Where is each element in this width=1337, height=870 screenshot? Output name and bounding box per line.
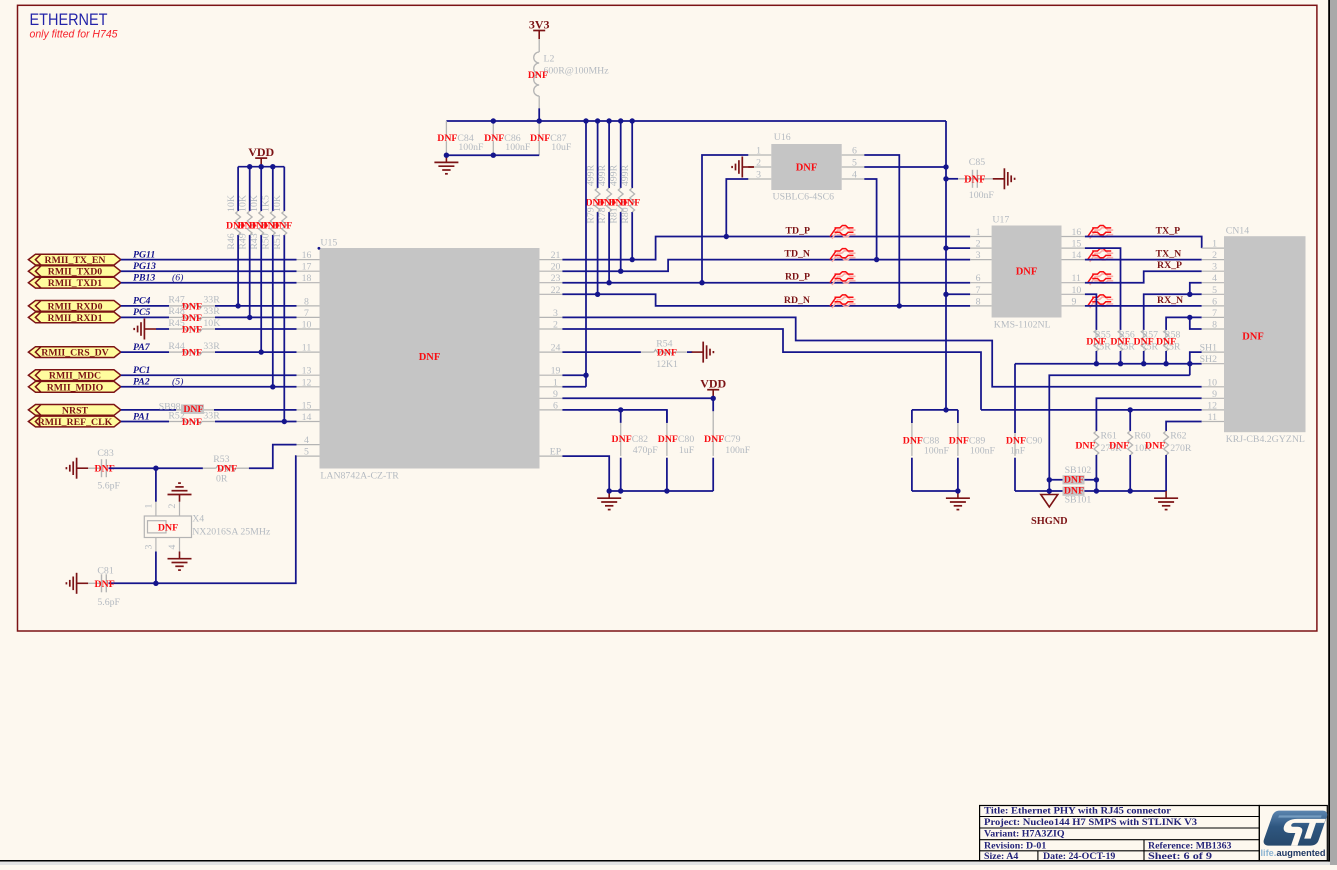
wire U15.9 row <box>562 397 713 399</box>
svg-text:DNF: DNF <box>1156 337 1176 348</box>
resistor R57 75R <box>1141 330 1146 351</box>
svg-text:R51: R51 <box>272 233 283 249</box>
SHGND symbol <box>1041 495 1058 508</box>
svg-text:9: 9 <box>553 389 558 400</box>
capacitor C88 <box>911 423 913 456</box>
svg-text:PG11: PG11 <box>133 249 155 260</box>
svg-text:33R: 33R <box>203 295 220 306</box>
wire <box>215 421 297 423</box>
wire U15.1 <box>562 386 586 388</box>
wire C89 top <box>957 410 959 423</box>
svg-text:2: 2 <box>756 158 761 169</box>
svg-text:100nF: 100nF <box>458 142 484 153</box>
svg-text:8: 8 <box>1212 320 1217 331</box>
wire C80 bottom <box>666 458 668 491</box>
svg-text:3: 3 <box>1212 262 1217 273</box>
svg-text:19: 19 <box>551 366 561 377</box>
svg-text:DNF: DNF <box>158 523 178 534</box>
wire C79 bottom <box>712 458 714 491</box>
wire U16.6 to RD_N <box>864 155 899 306</box>
svg-text:15: 15 <box>1072 239 1082 250</box>
svg-text:100nF: 100nF <box>970 446 996 457</box>
wire R57 bottom <box>1143 351 1145 364</box>
wire CN14.12 row to R60 <box>981 409 1202 411</box>
resistor R46 10K <box>236 211 241 235</box>
svg-text:11: 11 <box>1208 412 1218 423</box>
svg-text:DNF: DNF <box>530 133 550 144</box>
svg-text:DNF: DNF <box>183 404 203 415</box>
svg-text:KRJ-CB4.2GYZNL: KRJ-CB4.2GYZNL <box>1226 434 1305 445</box>
svg-text:100nF: 100nF <box>505 142 531 153</box>
ground C84 <box>434 155 458 174</box>
port RMII_RXD0 <box>28 301 120 313</box>
wire RX_P <box>1085 271 1202 283</box>
svg-text:SB98: SB98 <box>159 401 181 412</box>
pin name labels left <box>133 249 183 422</box>
capacitor C79 <box>712 411 714 456</box>
port RMII_RXD1 <box>28 312 120 324</box>
port NRST <box>28 405 120 417</box>
svg-text:16: 16 <box>302 250 312 261</box>
power 3V3 <box>529 18 550 40</box>
resistor R53 0R <box>203 466 249 471</box>
svg-text:RD_P: RD_P <box>785 272 810 283</box>
wire R51 leads <box>283 167 285 211</box>
svg-text:12: 12 <box>1207 400 1217 411</box>
svg-text:33R: 33R <box>203 306 220 317</box>
ground U16.2 <box>732 157 754 178</box>
resistor R79 499R <box>595 188 600 212</box>
svg-text:DNF: DNF <box>1016 267 1038 278</box>
svg-text:6: 6 <box>1212 296 1217 307</box>
solder bridge SB101 <box>1063 486 1085 497</box>
svg-text:RD_N: RD_N <box>784 295 810 306</box>
svg-text:1: 1 <box>1212 239 1217 250</box>
IC U15 LAN8742A <box>320 248 540 469</box>
wire R49 leads <box>249 167 251 211</box>
wire X4 pin3 <box>155 552 157 584</box>
svg-text:5.6pF: 5.6pF <box>97 597 120 608</box>
svg-text:18: 18 <box>302 273 312 284</box>
wire R78 leads <box>608 121 610 188</box>
svg-text:PG13: PG13 <box>133 261 156 272</box>
svg-text:only fitted for H745: only fitted for H745 <box>30 29 119 41</box>
svg-text:23: 23 <box>551 273 561 284</box>
crystal X4 <box>144 502 191 552</box>
svg-text:VDD: VDD <box>700 377 726 391</box>
svg-text:U16: U16 <box>774 132 791 143</box>
wire shield bus SH <box>1015 363 1202 365</box>
wire <box>215 328 297 330</box>
wire <box>214 409 297 411</box>
svg-text:NX2016SA 25MHz: NX2016SA 25MHz <box>192 527 271 538</box>
connector CN14 KRJ-CB4.2GYZNL <box>1224 236 1306 432</box>
svg-text:1: 1 <box>144 503 155 508</box>
wire U15.6 row <box>562 410 667 423</box>
svg-text:4: 4 <box>1212 273 1217 284</box>
svg-text:8: 8 <box>976 296 981 307</box>
wire U16.4 to TD_N <box>864 179 876 260</box>
svg-text:ETHERNET: ETHERNET <box>30 10 108 29</box>
svg-text:C83: C83 <box>97 448 113 459</box>
svg-text:11: 11 <box>1072 273 1082 284</box>
wire R55 bottom <box>1095 351 1097 364</box>
svg-text:DNF: DNF <box>1134 337 1154 348</box>
svg-text:RMII_RXD1: RMII_RXD1 <box>48 313 103 324</box>
svg-text:DNF: DNF <box>182 313 202 324</box>
svg-text:USBLC6-4SC6: USBLC6-4SC6 <box>773 192 835 203</box>
wire U15.23 RD_P row <box>562 282 970 284</box>
svg-text:100nF: 100nF <box>969 190 995 201</box>
wire SB102 row <box>1049 479 1096 481</box>
svg-text:DNF: DNF <box>704 434 724 445</box>
resistor R56 75R <box>1118 330 1123 351</box>
wire C82 top <box>620 410 622 423</box>
wire TX_N <box>1085 259 1202 261</box>
resistor R49 10K <box>247 211 252 235</box>
wire <box>121 351 169 353</box>
resistor R47 33R <box>169 304 215 309</box>
svg-text:2: 2 <box>1212 250 1217 261</box>
differential pair mark right <box>1088 249 1114 262</box>
svg-text:4: 4 <box>167 544 178 549</box>
svg-text:DNF: DNF <box>95 579 115 590</box>
svg-text:11: 11 <box>302 343 312 354</box>
wire U16.1 to RD_P <box>702 155 748 283</box>
svg-text:DNF: DNF <box>612 434 632 445</box>
resistor R78 499R <box>607 188 612 212</box>
svg-text:1: 1 <box>976 227 981 238</box>
wire C90 top <box>1014 364 1016 433</box>
svg-text:DNF: DNF <box>796 162 818 173</box>
resistor R52 33R <box>169 419 215 424</box>
svg-text:DNF: DNF <box>1086 337 1106 348</box>
capacitor C81 <box>102 574 107 592</box>
logo box <box>1259 806 1327 862</box>
svg-text:10: 10 <box>302 320 312 331</box>
svg-text:SB102: SB102 <box>1065 465 1092 476</box>
resistor R44 33R <box>169 350 215 355</box>
svg-text:6: 6 <box>553 400 558 411</box>
svg-text:R43: R43 <box>249 233 260 249</box>
page right edge <box>1328 0 1330 862</box>
svg-text:RMII_MDC: RMII_MDC <box>49 371 101 382</box>
svg-text:C85: C85 <box>969 157 985 168</box>
svg-text:16: 16 <box>1072 227 1082 238</box>
svg-text:24: 24 <box>551 343 561 354</box>
svg-text:R62: R62 <box>1170 430 1186 441</box>
wire U15 pin5 to C81 <box>109 456 297 583</box>
svg-text:VDD: VDD <box>248 145 274 159</box>
wire U15.3 to CN14.10 <box>562 317 1201 386</box>
wire U15.22 jog <box>562 294 970 306</box>
svg-text:12: 12 <box>302 377 312 388</box>
wire C79 top <box>712 398 714 411</box>
resistor R60 10K <box>1128 431 1133 455</box>
wire R50 leads <box>272 167 274 211</box>
wire SB101 row bus <box>1015 490 1166 492</box>
svg-text:DNF: DNF <box>182 348 202 359</box>
svg-text:7: 7 <box>1212 308 1217 319</box>
svg-text:(5): (5) <box>172 377 183 388</box>
svg-text:RMII_RXD0: RMII_RXD0 <box>48 301 103 312</box>
svg-text:R80: R80 <box>620 207 631 223</box>
svg-text:600R@100MHz: 600R@100MHz <box>544 66 610 77</box>
wire R60 bottom <box>1129 455 1131 491</box>
svg-text:5: 5 <box>1212 285 1217 296</box>
wire C84 bottom bus <box>446 154 539 156</box>
VDD bank bus <box>238 166 284 168</box>
svg-text:DNF: DNF <box>182 325 202 336</box>
resistor R48 33R <box>169 315 215 320</box>
port RMII_MDC <box>28 370 120 382</box>
svg-text:DNF: DNF <box>528 70 548 81</box>
sheet border <box>18 5 1317 631</box>
svg-text:DNF: DNF <box>903 435 923 446</box>
wire <box>121 316 169 318</box>
svg-text:1: 1 <box>553 377 558 388</box>
resistor R58 75R <box>1164 330 1169 351</box>
svg-text:100nF: 100nF <box>924 446 950 457</box>
wire shield to SHGND <box>1049 375 1190 494</box>
U17 pins <box>970 227 1085 307</box>
svg-text:SHGND: SHGND <box>1031 516 1068 527</box>
wire <box>156 328 169 330</box>
wire C80 top <box>666 410 668 423</box>
svg-text:0R: 0R <box>216 474 228 485</box>
ground R54 <box>692 342 714 363</box>
svg-text:Title: Ethernet PHY with RJ45: Title: Ethernet PHY with RJ45 connector <box>984 806 1172 817</box>
svg-text:3: 3 <box>144 544 155 549</box>
wire <box>121 270 297 272</box>
wire R53 to U15 pin4 <box>249 445 297 469</box>
page bottom edge <box>0 860 1330 862</box>
wire TX_P <box>1085 237 1202 249</box>
svg-text:RMII_REF_CLK: RMII_REF_CLK <box>38 417 113 428</box>
ground C81 <box>66 573 88 594</box>
svg-text:10K: 10K <box>226 195 237 212</box>
ground C85 <box>993 168 1015 189</box>
svg-text:20: 20 <box>551 262 561 273</box>
svg-text:3: 3 <box>756 170 761 181</box>
svg-text:14: 14 <box>302 412 312 423</box>
svg-text:9: 9 <box>1212 389 1217 400</box>
svg-text:DNF: DNF <box>1242 332 1264 343</box>
svg-text:RMII_TXD1: RMII_TXD1 <box>48 278 103 289</box>
svg-text:8: 8 <box>304 296 309 307</box>
svg-text:DNF: DNF <box>1075 440 1095 451</box>
wire C90 bottom <box>1014 458 1016 491</box>
svg-text:10K: 10K <box>272 195 283 212</box>
resistor R81 499R <box>618 188 623 212</box>
svg-text:3V3: 3V3 <box>529 18 550 32</box>
svg-text:10: 10 <box>1072 285 1082 296</box>
capacitor C82 <box>620 423 622 456</box>
svg-text:KMS-1102NL: KMS-1102NL <box>994 320 1051 331</box>
wire CN14.9 to R61 <box>1096 398 1201 431</box>
svg-text:5: 5 <box>304 447 309 458</box>
wire R46 leads <box>237 167 239 211</box>
resistor R50 1K5 <box>270 211 275 235</box>
wire 3V3 feed column to U15 pins 19/1 <box>585 121 587 387</box>
wire C89 bottom <box>957 458 959 491</box>
svg-text:L2: L2 <box>544 54 555 65</box>
svg-text:13: 13 <box>302 366 312 377</box>
resistor R54 12K1 <box>641 350 687 355</box>
differential pair mark right <box>1088 272 1114 285</box>
svg-text:CN14: CN14 <box>1226 226 1250 237</box>
svg-text:C90: C90 <box>1026 435 1042 446</box>
svg-text:C82: C82 <box>632 434 648 445</box>
wire U15.2 to CN14.12 <box>562 329 981 410</box>
svg-text:TD_P: TD_P <box>786 226 811 237</box>
capacitor C87 <box>538 121 540 139</box>
wire <box>562 351 641 353</box>
differential pair mark <box>830 272 856 285</box>
power VDD left <box>248 145 274 167</box>
capacitor C89 <box>957 423 959 456</box>
wire R57 row <box>1144 294 1202 330</box>
wire R43 leads <box>260 167 262 211</box>
svg-text:C80: C80 <box>678 434 694 445</box>
svg-text:TX_N: TX_N <box>1156 249 1182 260</box>
svg-text:TD_N: TD_N <box>784 249 810 260</box>
svg-text:C79: C79 <box>724 434 740 445</box>
wire C85 gray lead <box>958 178 993 180</box>
svg-text:1K5: 1K5 <box>261 195 272 212</box>
svg-text:5: 5 <box>852 158 857 169</box>
svg-text:10K: 10K <box>249 195 260 212</box>
wire 3V3 to U17.2 <box>946 247 970 249</box>
wire <box>88 582 101 584</box>
wire R56 bottom <box>1120 351 1122 364</box>
wire <box>215 316 297 318</box>
svg-text:augmented: augmented <box>1277 848 1326 858</box>
IC U17 KMS-1102NL <box>992 226 1062 318</box>
svg-text:life.: life. <box>1261 848 1277 858</box>
svg-text:TX_P: TX_P <box>1156 226 1181 237</box>
wire R58 bottom <box>1165 351 1167 364</box>
svg-text:RMII_TX_EN: RMII_TX_EN <box>45 255 106 266</box>
wire X4 pin1 <box>155 468 157 502</box>
differential pair mark <box>830 249 856 262</box>
svg-text:DNF: DNF <box>1145 440 1165 451</box>
svg-text:U15: U15 <box>320 237 337 248</box>
svg-text:DNF: DNF <box>182 302 202 313</box>
svg-text:R81: R81 <box>608 207 619 223</box>
wire U17.15 to R56 <box>1085 248 1121 330</box>
svg-text:R78: R78 <box>597 207 608 223</box>
svg-text:499R: 499R <box>620 164 631 186</box>
wire 3V3 to U17.7 <box>946 293 970 295</box>
capacitor C90 <box>1014 433 1016 456</box>
svg-text:17: 17 <box>302 262 312 273</box>
wire R62 bottom <box>1165 455 1167 491</box>
port RMII_REF_CLK <box>28 416 120 428</box>
ground X4 pin2 <box>168 483 192 502</box>
svg-text:1uF: 1uF <box>679 445 695 456</box>
svg-text:2: 2 <box>976 239 981 250</box>
wire <box>121 282 297 284</box>
wire <box>121 421 169 423</box>
svg-text:RX_N: RX_N <box>1157 295 1183 306</box>
wire R60 top <box>1129 410 1131 431</box>
power VDD right <box>700 377 726 399</box>
differential pair mark right <box>1088 295 1114 308</box>
svg-text:10: 10 <box>1207 377 1217 388</box>
svg-text:2: 2 <box>553 320 558 331</box>
wire <box>121 386 297 388</box>
svg-text:DNF: DNF <box>620 197 640 208</box>
svg-text:X4: X4 <box>192 514 204 525</box>
port RMII_CRS_DV <box>28 347 120 359</box>
wire R58 row <box>1166 317 1202 330</box>
svg-text:100nF: 100nF <box>725 445 751 456</box>
svg-text:PB13: PB13 <box>133 273 155 284</box>
wire C88 bottom <box>911 458 913 491</box>
U16 pins <box>748 146 864 181</box>
svg-text:C81: C81 <box>97 566 113 577</box>
svg-text:10uF: 10uF <box>551 142 572 153</box>
svg-text:DNF: DNF <box>182 417 202 428</box>
svg-text:7: 7 <box>304 308 309 319</box>
svg-text:EP: EP <box>550 447 562 458</box>
wire decoupling ground bus <box>609 490 713 492</box>
svg-text:4: 4 <box>852 170 857 181</box>
wire <box>215 351 297 353</box>
port RMII_MDIO <box>28 381 120 393</box>
capacitor C84 <box>445 121 447 139</box>
resistor R80 499R <box>630 188 635 212</box>
svg-text:PA2: PA2 <box>133 377 150 388</box>
wire U16.5 to 3V3 <box>864 166 946 168</box>
svg-text:499R: 499R <box>608 164 619 186</box>
svg-text:PA7: PA7 <box>133 342 151 353</box>
svg-text:DNF: DNF <box>1109 440 1129 451</box>
differential pair mark <box>830 226 856 239</box>
ground X4 pin4 <box>168 552 192 571</box>
capacitor C86 <box>492 121 494 139</box>
svg-text:DNF: DNF <box>272 220 292 231</box>
wire C85 <box>946 178 958 180</box>
svg-text:3: 3 <box>976 250 981 261</box>
resistor R51 10K <box>282 211 287 235</box>
svg-text:DNF: DNF <box>419 352 441 363</box>
IC U16 USBLC6-4SC6 <box>771 144 841 190</box>
wire R81 leads <box>620 121 622 188</box>
svg-text:9: 9 <box>1072 296 1077 307</box>
wire U15.19 <box>562 374 586 376</box>
wire <box>121 259 297 261</box>
wire CN14.4/5 tie <box>1190 283 1202 295</box>
CN14 pins <box>1200 239 1224 423</box>
wire R61 bottom <box>1095 455 1097 491</box>
resistor R62 270R <box>1164 431 1169 455</box>
svg-text:SH2: SH2 <box>1200 354 1218 365</box>
svg-text:SB101: SB101 <box>1065 494 1092 505</box>
svg-text:3: 3 <box>553 308 558 319</box>
wire RX_N <box>1085 305 1202 307</box>
capacitor C80 <box>666 423 668 456</box>
resistor R45 10K <box>169 327 215 332</box>
wire <box>121 374 297 376</box>
wire <box>687 351 692 353</box>
ground C89 <box>946 491 970 510</box>
svg-text:4: 4 <box>304 435 309 446</box>
svg-text:PA1: PA1 <box>133 411 150 422</box>
ground C83 <box>66 458 88 479</box>
svg-text:DNF: DNF <box>1110 337 1130 348</box>
